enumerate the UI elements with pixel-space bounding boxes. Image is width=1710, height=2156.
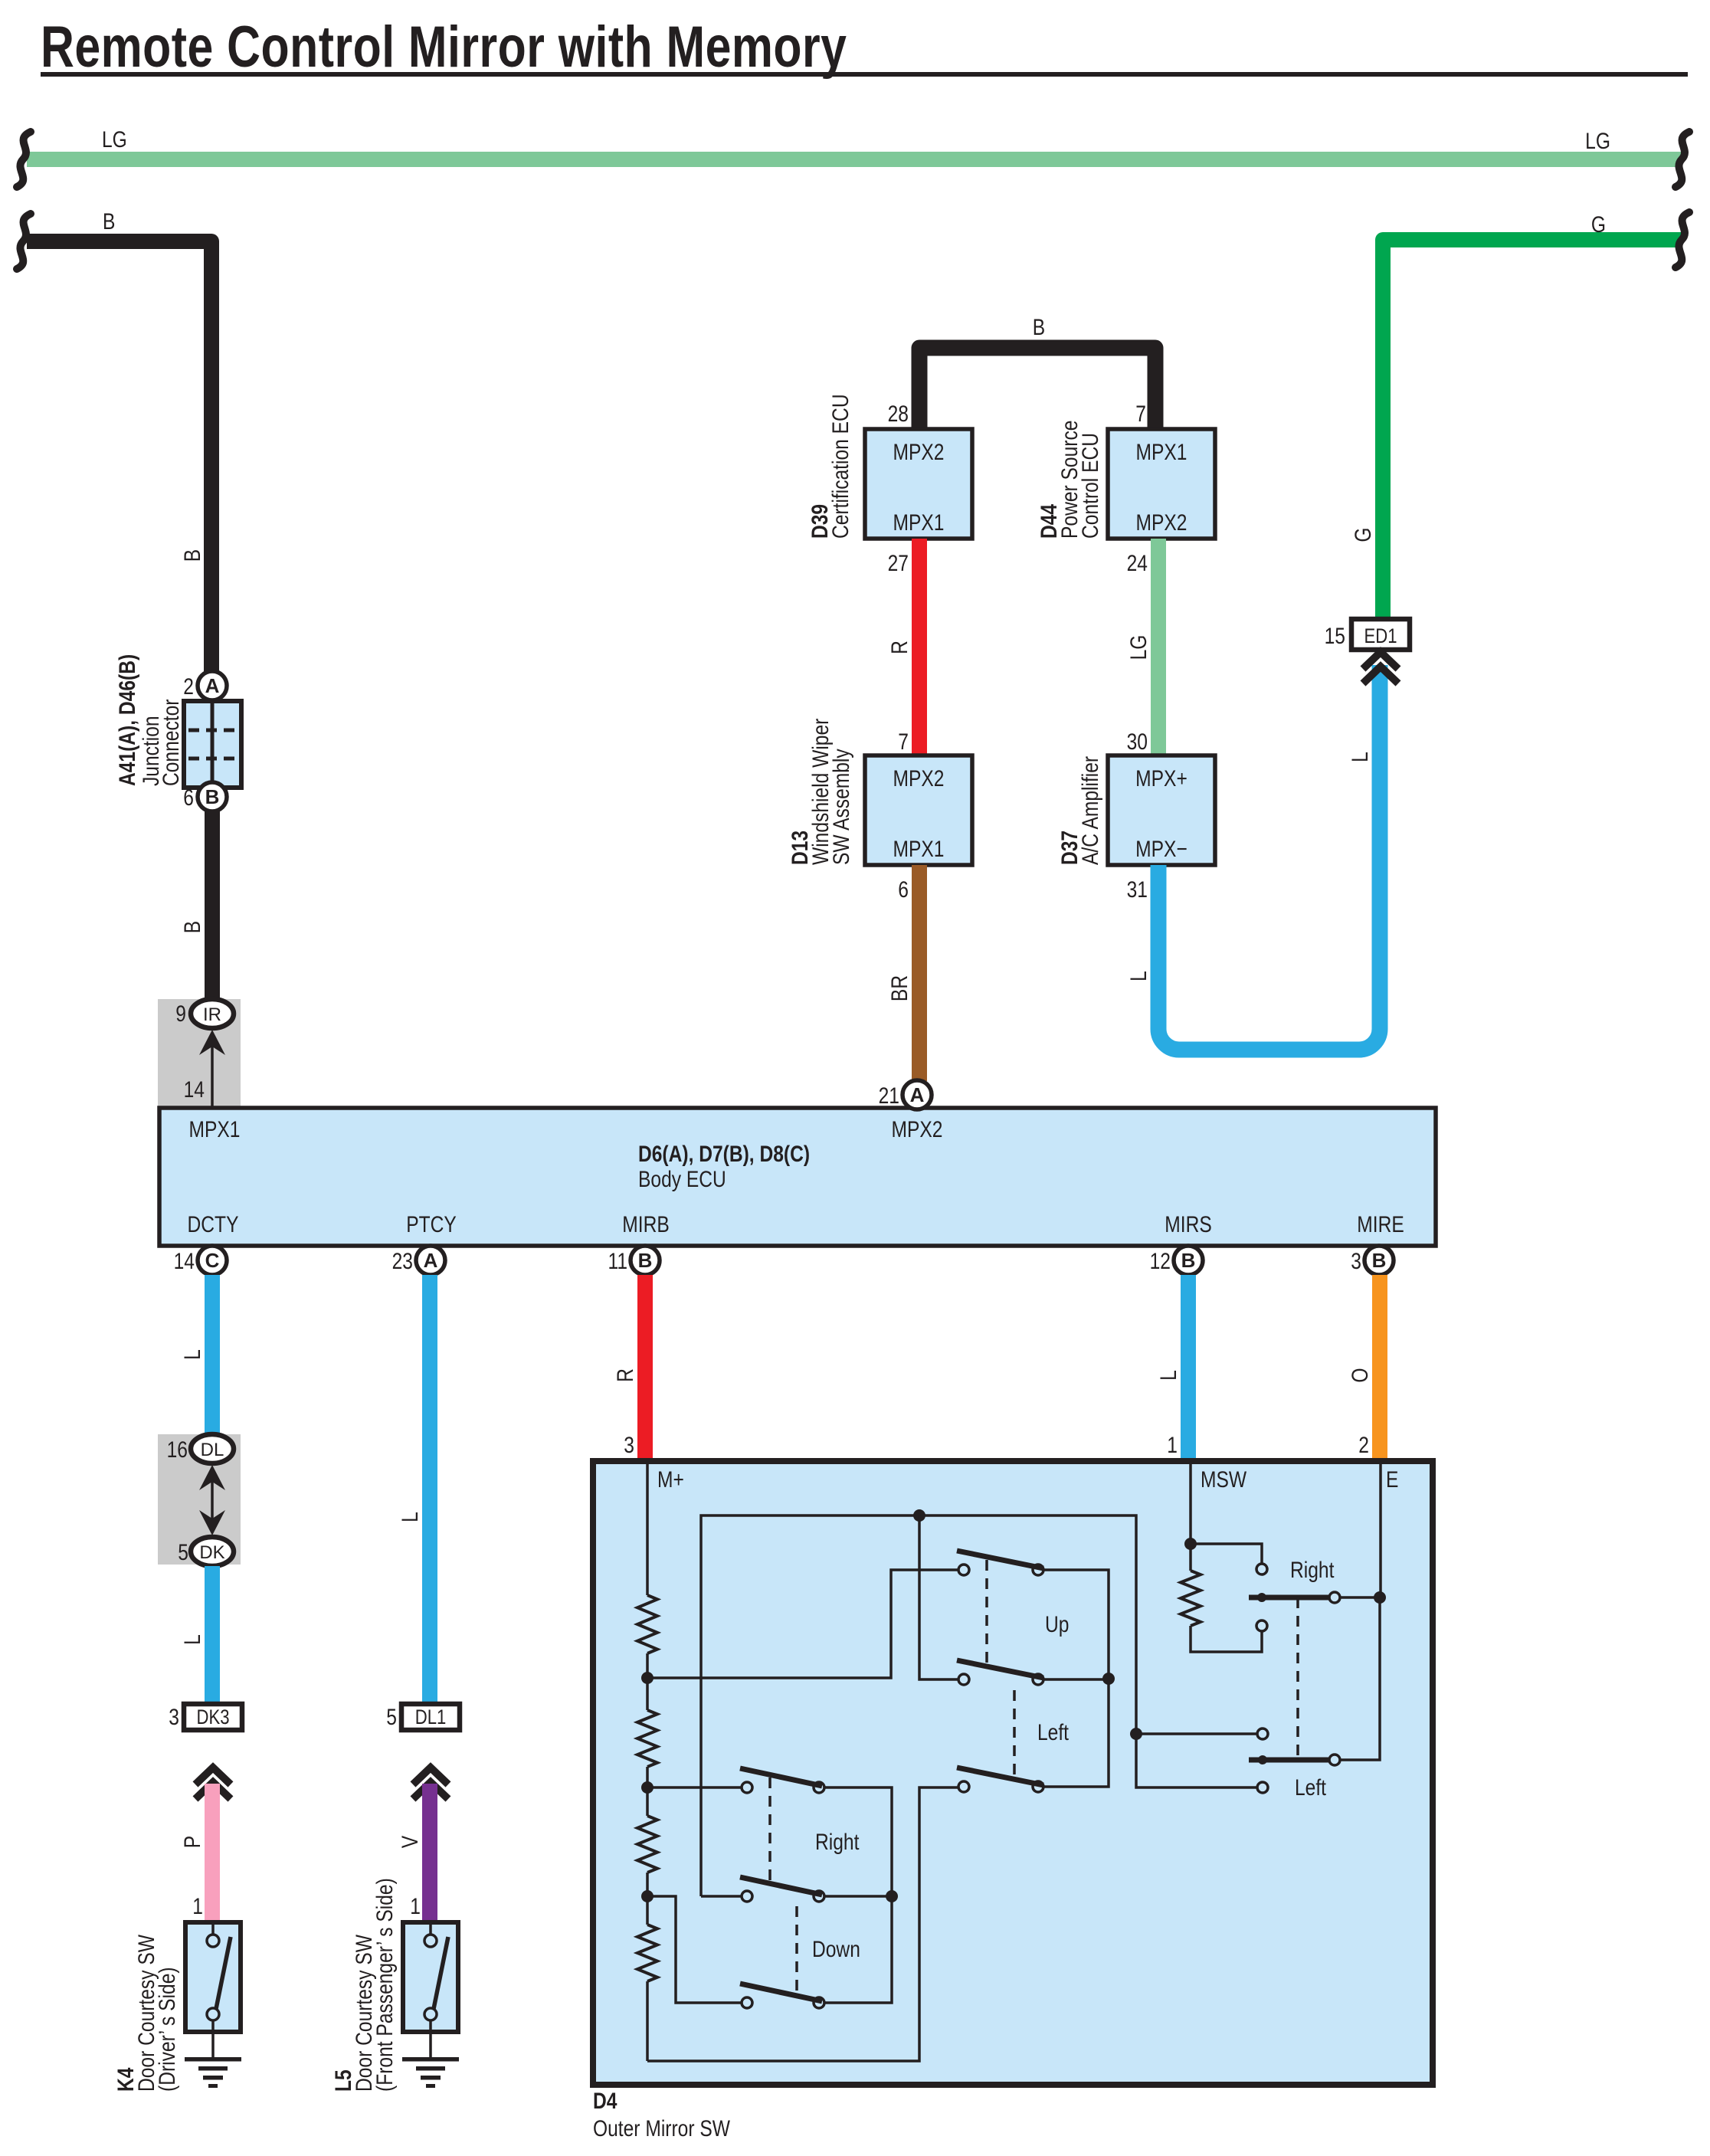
label B — [1033, 314, 1045, 340]
label Right MSW — [1290, 1557, 1335, 1583]
svg-text:V: V — [397, 1835, 423, 1848]
label Right — [815, 1829, 860, 1855]
connector ED1 — [1351, 619, 1410, 650]
gang dashes Up-Left upper — [985, 1560, 988, 1669]
break squiggle G right — [1676, 212, 1689, 267]
svg-text:LG: LG — [1125, 635, 1151, 660]
svg-text:A/C Amplifier: A/C Amplifier — [1077, 756, 1103, 865]
contact MSW select upper — [1256, 1564, 1267, 1574]
svg-text:MPX1: MPX1 — [893, 836, 945, 862]
svg-text:C: C — [205, 1249, 220, 1272]
contact MSW Right output — [1329, 1592, 1340, 1603]
svg-text:14: 14 — [184, 1076, 205, 1103]
svg-text:D6(A), D7(B), D8(C): D6(A), D7(B), D8(C) — [638, 1141, 810, 1167]
label L rotated left leg — [1125, 971, 1151, 981]
resistor R2 of D4 chain — [637, 1710, 657, 1767]
wire tap1 to Up row1 — [647, 1570, 958, 1678]
contact MSW lower tap A — [1257, 1728, 1268, 1739]
svg-text:A: A — [205, 674, 220, 697]
wire LG (light green) top bus — [27, 152, 1682, 167]
label L rotated — [397, 1512, 423, 1522]
switch L5 Door Courtesy SW (Front Passenger's Side) — [403, 1922, 458, 2032]
svg-text:27: 27 — [888, 550, 909, 576]
break squiggle LG right — [1676, 132, 1689, 187]
svg-text:Left: Left — [1295, 1774, 1326, 1800]
svg-text:(Driver’ s Side): (Driver’ s Side) — [154, 1967, 180, 2092]
label G right — [1591, 211, 1606, 238]
pin 15 of ED1 — [1325, 623, 1345, 649]
connector DL1 pin 5 — [401, 1704, 460, 1730]
label LG right — [1585, 128, 1610, 154]
svg-text:MPX2: MPX2 — [892, 1116, 943, 1142]
svg-text:Up: Up — [1045, 1611, 1069, 1637]
pin circle B 12 MIRS — [1174, 1246, 1203, 1275]
label Junction Connector — [138, 716, 164, 786]
connector DK3 pin 3 — [184, 1704, 242, 1730]
svg-text:DL: DL — [201, 1440, 224, 1460]
svg-text:B: B — [179, 921, 205, 933]
svg-text:MPX1: MPX1 — [893, 510, 945, 536]
pin 6 of D13 — [898, 876, 909, 903]
svg-text:7: 7 — [1135, 401, 1146, 427]
port MIRB — [622, 1211, 669, 1237]
label L rotated right leg — [1347, 752, 1373, 762]
svg-text:L: L — [179, 1349, 205, 1360]
svg-text:B: B — [1181, 1249, 1196, 1272]
wire R (red) MIRB to D4 pin 3 — [637, 1275, 653, 1461]
wire tap2 to Right-Down row1 — [647, 1786, 742, 1789]
svg-text:Right: Right — [1290, 1557, 1335, 1583]
svg-text:3: 3 — [1351, 1248, 1361, 1274]
title: Remote Control Mirror with Memory — [41, 15, 847, 80]
label D37 — [1056, 831, 1083, 865]
svg-text:BR: BR — [886, 975, 912, 1001]
pin 2 of D4 — [1358, 1432, 1369, 1458]
wire B (black) from left break to junction connector — [27, 241, 211, 674]
svg-text:Connector: Connector — [158, 700, 184, 786]
svg-text:E: E — [1386, 1466, 1398, 1492]
lever Up-Left row3 — [957, 1768, 1043, 1785]
svg-text:G: G — [1350, 527, 1376, 542]
junction connector A41(A), D46(B) body — [184, 701, 241, 788]
pin circle A 21 on top of Body ECU — [902, 1080, 932, 1109]
port PTCY — [406, 1211, 457, 1237]
svg-text:DK: DK — [199, 1542, 224, 1563]
lever Right-Down row1 — [740, 1768, 822, 1786]
svg-text:MPX1: MPX1 — [1136, 439, 1187, 465]
pin circle A 23 PTCY — [416, 1246, 445, 1275]
lever Right-Down row3 — [740, 1984, 822, 2001]
svg-text:SW Assembly: SW Assembly — [828, 749, 854, 865]
pin 28 of D39 — [888, 401, 909, 427]
svg-text:16: 16 — [167, 1437, 188, 1463]
svg-text:Remote Control Mirror with Mem: Remote Control Mirror with Memory — [41, 15, 847, 80]
wire M+ feed to resistor chain — [646, 1464, 649, 1595]
gang dashes Right-Down lower — [795, 1906, 798, 1992]
wire R (red) D39 pin 27 to D13 pin 7 — [912, 539, 927, 755]
lever MSW Left — [1249, 1758, 1330, 1763]
wire IR to Body ECU MPX1 — [211, 1047, 214, 1108]
wire BR (brown) D13 pin 6 to Body ECU pin 21 — [912, 865, 927, 1081]
wire V (violet) L5 to DL1 — [422, 1784, 437, 1922]
wire MSW pin to resistor node — [1189, 1464, 1192, 1571]
pin 31 of D37 — [1127, 876, 1148, 903]
svg-text:MIRE: MIRE — [1357, 1211, 1404, 1237]
node chain tap 3 — [641, 1890, 654, 1902]
svg-text:1: 1 — [192, 1893, 203, 1919]
gang dashes Right-Down upper — [768, 1778, 771, 1885]
amplifier D37 A/C Amplifier — [1108, 755, 1215, 865]
svg-text:Certification ECU: Certification ECU — [827, 394, 853, 539]
ECU D39 Certification ECU — [865, 429, 972, 539]
svg-text:R: R — [612, 1368, 638, 1382]
wire top rail drop to Up-Left row2 — [919, 1515, 958, 1679]
wire tap3 to Right-Down row3 — [647, 1896, 742, 2003]
connector oval DL pin 16 — [191, 1434, 234, 1463]
svg-text:L: L — [397, 1512, 423, 1522]
shield zone gray box at IR — [158, 999, 241, 1108]
svg-text:MPX−: MPX− — [1135, 836, 1187, 862]
label R rotated — [612, 1368, 638, 1382]
label Down — [812, 1936, 860, 1962]
svg-text:MPX+: MPX+ — [1135, 765, 1187, 791]
svg-text:B: B — [638, 1249, 653, 1272]
gang dashes Up-Left lower — [1013, 1690, 1016, 1776]
port M+ — [657, 1466, 684, 1492]
label A41(A), D46(B) — [114, 654, 140, 786]
svg-text:3: 3 — [624, 1432, 634, 1458]
label K4 — [113, 2067, 139, 2092]
contact MSW select lower — [1256, 1620, 1267, 1631]
wire MSW resistor to lower contact — [1191, 1626, 1262, 1652]
pin 14 of Body ECU MPX1 — [184, 1076, 205, 1103]
label L rotated — [179, 1349, 205, 1360]
lever MSW Right — [1249, 1595, 1330, 1601]
wire chain bottom to bottom rail — [646, 1981, 649, 2061]
svg-text:B: B — [103, 208, 115, 234]
svg-text:Outer Mirror SW: Outer Mirror SW — [593, 2115, 730, 2141]
svg-text:B: B — [205, 785, 220, 808]
svg-text:1: 1 — [1167, 1432, 1178, 1458]
pin 27 of D39 — [888, 550, 909, 576]
svg-text:P: P — [179, 1836, 205, 1848]
lever Up-Left row2 — [957, 1660, 1043, 1678]
connector oval DK pin 5 — [191, 1537, 234, 1566]
svg-text:23: 23 — [392, 1248, 413, 1274]
label Left inner — [1037, 1719, 1069, 1745]
label BR rotated — [886, 975, 912, 1001]
label B rotated above junction — [179, 549, 205, 562]
svg-text:2: 2 — [1358, 1432, 1369, 1458]
wire LG (light green) D44 pin 24 to D37 pin 30 — [1151, 539, 1166, 755]
label A/C Amplifier — [1077, 756, 1103, 865]
switch assembly D13 Windshield Wiper SW Assembly — [865, 755, 972, 865]
wire MSW node to upper contact — [1191, 1544, 1262, 1564]
pin 3 of D4 — [624, 1432, 634, 1458]
switch Right-Down row3 contacts — [742, 1997, 752, 2008]
wire L (blue) D37 pin 31 loop to ED1 pin 15 — [1158, 665, 1380, 1050]
port DCTY — [188, 1211, 239, 1237]
svg-text:DCTY: DCTY — [188, 1211, 239, 1237]
svg-text:7: 7 — [898, 729, 909, 755]
svg-text:9: 9 — [175, 1001, 186, 1027]
svg-text:5: 5 — [178, 1539, 188, 1565]
label LG left — [102, 126, 127, 152]
node Up-Left common — [1102, 1673, 1115, 1685]
svg-text:G: G — [1591, 211, 1606, 238]
svg-text:31: 31 — [1127, 876, 1148, 903]
svg-text:B: B — [1033, 314, 1045, 340]
label L rotated — [179, 1634, 205, 1645]
arrow into IR — [199, 1030, 225, 1055]
svg-text:Down: Down — [812, 1936, 860, 1962]
svg-text:3: 3 — [169, 1704, 179, 1730]
svg-text:L: L — [1155, 1370, 1181, 1381]
label L rotated — [1155, 1370, 1181, 1381]
svg-text:A41(A), D46(B): A41(A), D46(B) — [114, 654, 140, 786]
connector circle B pin 6 (D46) — [198, 782, 227, 811]
switch Up-Left row1 contacts — [958, 1565, 969, 1575]
svg-text:Left: Left — [1037, 1719, 1069, 1745]
break squiggle LG left — [17, 132, 31, 187]
svg-text:Control ECU: Control ECU — [1077, 433, 1103, 539]
port MPX2 — [892, 1116, 943, 1142]
svg-text:D4: D4 — [593, 2088, 617, 2114]
svg-text:21: 21 — [879, 1083, 899, 1109]
wire top rail drop to Right-Down row2 — [701, 1895, 742, 1898]
lever Right-Down row2 — [740, 1877, 822, 1895]
svg-text:1: 1 — [410, 1893, 421, 1919]
pin 1 of K4 — [192, 1893, 203, 1919]
shield arrows into ED1 — [1363, 652, 1398, 669]
label LG rotated — [1125, 635, 1151, 660]
svg-text:ED1: ED1 — [1364, 625, 1397, 648]
shield zone gray box DL-DK — [158, 1434, 241, 1565]
svg-text:B: B — [179, 549, 205, 562]
wire top rail inside D4 — [701, 1515, 1136, 1896]
svg-text:A: A — [910, 1083, 925, 1106]
node E junction — [1374, 1591, 1386, 1604]
title underline rule — [41, 72, 1688, 77]
pin 30 of D37 — [1127, 729, 1148, 755]
node chain tap 2 — [641, 1781, 654, 1794]
label R rotated — [886, 641, 912, 654]
svg-text:5: 5 — [386, 1704, 397, 1730]
contact MSW lower tap C — [1257, 1782, 1268, 1793]
label Door Courtesy SW (Driver's Side) — [133, 1935, 159, 2092]
wire L (blue) MIRS to D4 pin 1 — [1181, 1275, 1196, 1461]
label O rotated — [1347, 1368, 1373, 1382]
svg-text:L: L — [1125, 971, 1151, 981]
svg-text:O: O — [1347, 1368, 1373, 1382]
svg-text:LG: LG — [1585, 128, 1610, 154]
svg-text:PTCY: PTCY — [406, 1211, 457, 1237]
pin 7 of D13 — [898, 729, 909, 755]
label Certification ECU — [827, 394, 853, 539]
label P rotated — [179, 1836, 205, 1848]
port MIRE — [1357, 1211, 1404, 1237]
ground symbol K4 — [185, 2057, 241, 2062]
svg-text:Body ECU: Body ECU — [638, 1166, 726, 1192]
pin 1 of D4 — [1167, 1432, 1178, 1458]
label V rotated — [397, 1835, 423, 1848]
port MPX1 — [189, 1116, 241, 1142]
wire P (pink) K4 to DK3 — [205, 1784, 220, 1922]
ground symbol L5 — [402, 2057, 459, 2062]
label D13 — [787, 831, 813, 865]
svg-text:MPX2: MPX2 — [1136, 510, 1187, 536]
svg-text:LG: LG — [102, 126, 127, 152]
node top rail junction — [913, 1509, 925, 1522]
switch D4 Outer Mirror SW body — [593, 1461, 1433, 2085]
break squiggle B left — [17, 214, 31, 269]
pin 7 of D44 — [1135, 401, 1146, 427]
resistor MSW — [1181, 1571, 1201, 1626]
pin circle B 11 MIRB — [631, 1246, 660, 1275]
svg-text:MPX2: MPX2 — [893, 765, 945, 791]
svg-text:L: L — [1347, 752, 1373, 762]
svg-text:A: A — [424, 1249, 438, 1272]
label B left — [103, 208, 115, 234]
connector circle A pin 2 (A41) — [198, 671, 227, 700]
switch K4 Door Courtesy SW (Driver's Side) — [185, 1922, 241, 2032]
svg-text:6: 6 — [898, 876, 909, 903]
resistor R4 of D4 chain — [637, 1925, 657, 1981]
svg-text:28: 28 — [888, 401, 909, 427]
svg-text:DK3: DK3 — [196, 1706, 229, 1729]
label D39 — [807, 504, 833, 539]
wire L (blue) DK to DK3 — [205, 1566, 220, 1704]
label Power Source Control ECU — [1056, 421, 1083, 539]
svg-text:12: 12 — [1150, 1248, 1171, 1274]
pin circle C 14 DCTY — [198, 1246, 227, 1275]
label Door Courtesy SW (Front Passenger's Side) — [351, 1935, 377, 2092]
node MSW — [1184, 1538, 1197, 1550]
wire O (orange) MIRE to D4 pin 2 — [1372, 1275, 1387, 1461]
switch Up-Left row3 contacts — [958, 1781, 969, 1792]
wire L (blue) PTCY to DL1 — [422, 1275, 437, 1704]
svg-text:MPX2: MPX2 — [893, 439, 945, 465]
label G rotated on vertical — [1350, 527, 1376, 542]
wire B (black) junction to IR — [205, 810, 220, 1001]
svg-text:24: 24 — [1127, 550, 1148, 576]
resistor R1 of D4 chain — [637, 1595, 657, 1653]
svg-text:MSW: MSW — [1201, 1466, 1246, 1492]
shield arrows into DK3 — [195, 1768, 231, 1784]
svg-text:DL1: DL1 — [415, 1706, 447, 1729]
svg-text:M+: M+ — [657, 1466, 684, 1492]
wire G (green) from ED1 up and right to break — [1383, 240, 1682, 622]
wire row1 right to common — [1043, 1570, 1109, 1787]
svg-text:Right: Right — [815, 1829, 860, 1855]
switch Up-Left row2 contacts — [958, 1674, 969, 1685]
svg-text:(Front Passenger’ s Side): (Front Passenger’ s Side) — [372, 1878, 398, 2092]
lever Up-Left row1 — [957, 1551, 1043, 1568]
wire L (blue) DCTY to DL — [205, 1275, 220, 1436]
port MSW — [1201, 1466, 1246, 1492]
svg-text:MIRS: MIRS — [1165, 1211, 1211, 1237]
pin 24 of D44 — [1127, 550, 1148, 576]
pin circle B 3 MIRE — [1364, 1246, 1394, 1275]
wire E pin down to levers — [1379, 1464, 1382, 1597]
svg-text:6: 6 — [183, 785, 194, 811]
switch Right-Down row2 contacts — [742, 1891, 752, 1902]
ECU D44 Power Source Control ECU — [1108, 429, 1215, 539]
contact MSW Left output — [1329, 1755, 1340, 1765]
wire bottom rail — [647, 1787, 958, 2061]
wire MSW lower taps from top rail — [1136, 1732, 1257, 1735]
svg-text:15: 15 — [1325, 623, 1345, 649]
resistor R3 of D4 chain — [637, 1816, 657, 1873]
pin 1 of L5 — [410, 1893, 421, 1919]
node chain tap 1 — [641, 1672, 654, 1684]
label Windshield Wiper SW Assembly — [807, 719, 834, 865]
label Left MSW — [1295, 1774, 1326, 1800]
label D44 — [1036, 503, 1062, 539]
svg-text:14: 14 — [174, 1248, 195, 1274]
label Up — [1045, 1611, 1069, 1637]
node MSW lower tap — [1130, 1728, 1142, 1740]
label D4 — [593, 2088, 617, 2114]
label Outer Mirror SW — [593, 2115, 730, 2141]
port E — [1386, 1466, 1398, 1492]
svg-text:L: L — [179, 1634, 205, 1645]
shield arrows into DL1 — [413, 1768, 448, 1784]
label L5 — [330, 2069, 356, 2092]
port MIRS — [1165, 1211, 1211, 1237]
connector oval IR pin 9 — [191, 999, 234, 1028]
wire B (black) linking D39 pin 28 and D44 pin 7 — [919, 348, 1155, 429]
twisted pair arrows DL to DK — [199, 1465, 225, 1490]
wire row1 right to common — [824, 1787, 892, 2003]
node Right-Down common — [886, 1890, 898, 1902]
switch Right-Down row1 contacts — [742, 1782, 752, 1793]
label B rotated below junction — [179, 921, 205, 933]
svg-text:30: 30 — [1127, 729, 1148, 755]
ECU D6(A), D7(B), D8(C) Body ECU — [159, 1108, 1436, 1246]
svg-text:MIRB: MIRB — [622, 1211, 669, 1237]
svg-text:2: 2 — [183, 673, 194, 700]
svg-text:B: B — [1372, 1249, 1387, 1272]
svg-text:11: 11 — [608, 1248, 627, 1274]
svg-text:MPX1: MPX1 — [189, 1116, 241, 1142]
svg-text:R: R — [886, 641, 912, 654]
gang dashes MSW — [1296, 1597, 1299, 1760]
svg-text:IR: IR — [203, 1004, 221, 1025]
